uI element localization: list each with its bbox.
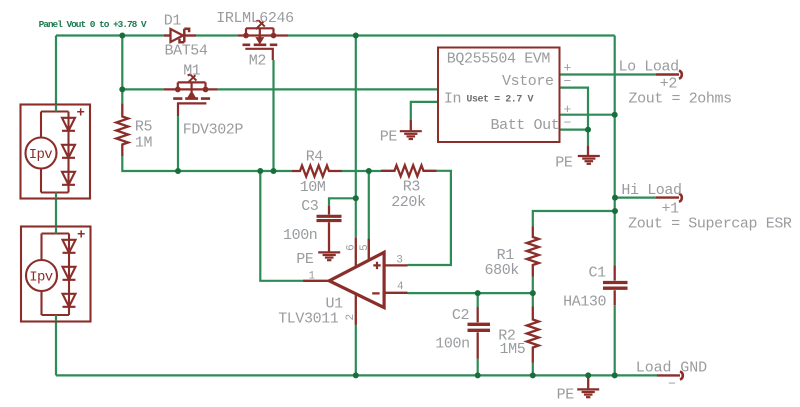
- resistor R2: [527, 307, 539, 363]
- resistor R1: [527, 227, 539, 277]
- svg-text:+: +: [564, 102, 572, 117]
- wire between D1 and M2: [196, 34, 238, 36]
- junction bottom PE4: [585, 372, 591, 378]
- wire M1 gate down: [177, 116, 179, 171]
- svg-text:M1: M1: [183, 63, 201, 80]
- solar panel module 1: [21, 105, 91, 199]
- svg-text:−: −: [564, 74, 572, 89]
- svg-text:R5: R5: [135, 119, 153, 136]
- svg-text:220k: 220k: [391, 194, 426, 211]
- wire R2 top lead: [532, 293, 534, 306]
- svg-text:5: 5: [359, 245, 371, 251]
- wire ground stem PE2: [587, 130, 589, 146]
- svg-text:Batt Out: Batt Out: [491, 117, 560, 134]
- svg-text:1: 1: [309, 270, 316, 282]
- wire Batt minus: [560, 129, 589, 131]
- capacitor C1: [603, 265, 628, 305]
- wire panel gap vertical: [55, 198, 57, 227]
- wire bottom rail: [56, 374, 657, 376]
- wire In minus: [411, 102, 438, 120]
- capacitor C3: [317, 206, 342, 252]
- IC block BQ255504 EVM: [438, 48, 560, 143]
- svg-text:2: 2: [345, 314, 357, 320]
- svg-text:C1: C1: [589, 265, 607, 282]
- wire R4 to R3: [342, 170, 381, 172]
- resistor R4: [292, 166, 342, 177]
- svg-text:FDV302P: FDV302P: [183, 122, 244, 139]
- wire pin2 down: [355, 325, 357, 376]
- svg-text:100n: 100n: [283, 227, 317, 244]
- wire top to right corner: [288, 34, 615, 36]
- pin 5: [368, 171, 370, 261]
- junction M1 row at R5 column: [119, 86, 125, 92]
- junction top at R5 column: [119, 33, 125, 39]
- wire Vstore minus: [560, 88, 589, 130]
- junction Batt minus node: [585, 127, 591, 133]
- junction R1 top node: [612, 208, 618, 214]
- svg-text:100n: 100n: [435, 336, 469, 353]
- pin 3: [384, 264, 407, 266]
- svg-text:TLV3011: TLV3011: [278, 310, 339, 327]
- wire right vertical upper: [614, 36, 616, 266]
- wire left vertical to panel1: [55, 36, 57, 105]
- wire C2 bottom lead: [477, 359, 479, 376]
- svg-text:4: 4: [397, 281, 404, 293]
- svg-text:IRLML6246: IRLML6246: [216, 10, 294, 27]
- svg-text:C3: C3: [301, 198, 319, 215]
- svg-text:D1: D1: [164, 12, 182, 29]
- svg-text:C2: C2: [452, 307, 469, 324]
- solar panel module 2: [21, 227, 91, 322]
- transistor M2: [238, 20, 288, 60]
- resistor R5: [116, 103, 128, 156]
- svg-text:In: In: [444, 90, 461, 107]
- junction pin4 R2: [530, 290, 536, 296]
- svg-text:10M: 10M: [300, 179, 326, 196]
- svg-text:Vstore: Vstore: [502, 73, 554, 90]
- pin 2: [355, 294, 357, 325]
- wire M1 to BQ In+: [218, 88, 439, 90]
- junction bottom R2: [530, 372, 536, 378]
- junction feedback node: [257, 168, 263, 174]
- wire Lo Load: [560, 73, 657, 75]
- junction pin5 node: [366, 168, 372, 174]
- svg-text:HA130: HA130: [563, 293, 606, 310]
- junction pin4 C2: [475, 290, 481, 296]
- svg-text:PE: PE: [296, 251, 314, 268]
- svg-text:Zout = 2ohms: Zout = 2ohms: [629, 91, 732, 108]
- svg-text:3: 3: [396, 254, 402, 266]
- wire M1 row left: [122, 88, 164, 90]
- junction Hi Load node: [612, 195, 618, 201]
- svg-text:Ipv: Ipv: [29, 147, 53, 163]
- ground PE1: [410, 120, 412, 130]
- svg-text:PE: PE: [557, 386, 575, 403]
- wire vertical to R5: [121, 36, 123, 104]
- svg-text:1M5: 1M5: [500, 341, 526, 358]
- wire R1 bottom lead: [532, 277, 534, 294]
- transistor M1: [164, 74, 218, 116]
- junction bottom pin2: [353, 372, 359, 378]
- wire right vertical lower: [614, 305, 616, 375]
- svg-text:Uset = 2.7 V: Uset = 2.7 V: [466, 94, 533, 105]
- wire top-left horizontal: [56, 34, 164, 36]
- svg-text:Lo Load: Lo Load: [619, 58, 679, 75]
- ground PE3: [318, 252, 340, 260]
- junction M1 gate: [175, 168, 181, 174]
- wire R1 top to Hi node: [533, 211, 615, 227]
- ground PE2: [587, 146, 589, 155]
- svg-text:Ipv: Ipv: [29, 270, 53, 286]
- svg-text:6: 6: [346, 245, 358, 251]
- svg-text:PE: PE: [555, 155, 573, 172]
- junction bottom C2: [475, 372, 481, 378]
- svg-text:M2: M2: [249, 52, 266, 69]
- junction bottom C1: [612, 372, 618, 378]
- diode D1: [164, 29, 196, 42]
- op-amp U1: [329, 252, 384, 307]
- wire pin6 vertical from top: [355, 36, 357, 239]
- wire M2 gate down: [272, 60, 274, 171]
- connector Lo Load: [656, 73, 679, 75]
- svg-text:BAT54: BAT54: [165, 43, 208, 60]
- svg-text:−: −: [564, 116, 572, 131]
- svg-text:Hi Load: Hi Load: [621, 182, 681, 199]
- junction M2 gate: [271, 168, 277, 174]
- wire C3 branch: [329, 198, 356, 206]
- pin 1: [303, 280, 329, 282]
- ground PE4: [587, 375, 589, 388]
- junction C3 node: [353, 195, 359, 201]
- svg-text:BQ255504 EVM: BQ255504 EVM: [447, 50, 551, 67]
- connector Load GND: [657, 374, 680, 376]
- wire Hi Load: [615, 197, 656, 199]
- wire R2 bottom lead: [532, 363, 534, 376]
- svg-text:1M: 1M: [135, 135, 153, 152]
- wire Batt plus: [560, 114, 615, 116]
- capacitor C2: [468, 307, 491, 359]
- svg-text:680k: 680k: [485, 262, 520, 279]
- wire pin1 feedback: [260, 171, 303, 281]
- wire below panel2: [55, 321, 57, 375]
- svg-text:R4: R4: [306, 148, 324, 165]
- junction Batt plus node: [612, 112, 618, 118]
- svg-text:+: +: [77, 228, 85, 244]
- junction top at pin6 column: [353, 33, 359, 39]
- svg-text:Panel Vout 0 to +3.78 V: Panel Vout 0 to +3.78 V: [39, 19, 147, 30]
- svg-text:Load GND: Load GND: [636, 360, 707, 377]
- wire C2 top lead: [477, 293, 479, 307]
- resistor R3: [381, 165, 436, 176]
- pin 4: [384, 292, 407, 294]
- connector Hi Load: [656, 196, 679, 198]
- svg-text:PE: PE: [380, 129, 398, 146]
- pin 6: [355, 238, 357, 267]
- svg-text:Zout = Supercap ESR: Zout = Supercap ESR: [628, 216, 792, 233]
- wire pin4 row: [408, 292, 533, 294]
- wire R3 right corner down to pin3: [408, 171, 451, 265]
- svg-text:+: +: [77, 106, 85, 122]
- wire R5 bottom to R4 row: [122, 156, 292, 171]
- svg-text:−: −: [668, 377, 676, 392]
